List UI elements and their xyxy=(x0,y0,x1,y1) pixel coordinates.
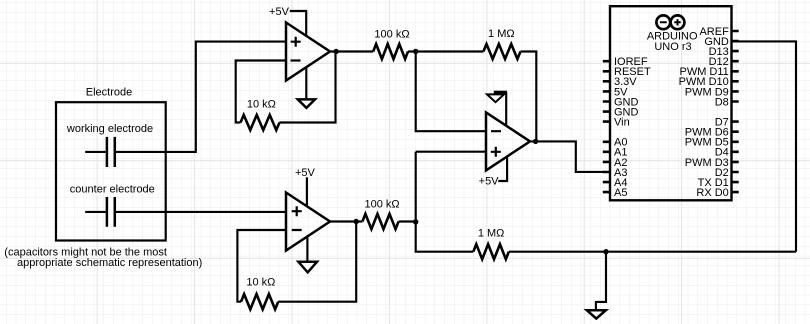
op-amp U1 xyxy=(286,23,330,81)
ground below U2 xyxy=(298,262,317,273)
svg-text:+5V: +5V xyxy=(269,6,290,18)
wire to bottom ground xyxy=(596,252,606,310)
electrode box xyxy=(56,102,166,240)
wire U3 + input branch down to bottom rail xyxy=(416,152,486,252)
wire +5V to U2 xyxy=(306,177,308,206)
wire U1 to ground xyxy=(305,67,307,99)
wire C2 to U2 + input xyxy=(116,211,286,213)
wire +5V to U3 xyxy=(498,156,507,181)
resistor R3 1 MOhm xyxy=(483,44,520,59)
node U1 output junction xyxy=(333,49,338,54)
node U2 output junction xyxy=(354,219,359,224)
wire R5 to U2 output xyxy=(278,222,356,302)
Arduino UNO r3 xyxy=(603,6,739,200)
node summing junction xyxy=(413,49,418,54)
wire C1 left lead xyxy=(85,151,106,153)
svg-text:10 kΩ: 10 kΩ xyxy=(247,99,276,111)
op-amp U3 xyxy=(486,112,530,170)
ground above U3 xyxy=(487,92,507,102)
wire U3 output xyxy=(530,141,604,172)
svg-text:Electrode: Electrode xyxy=(86,86,132,98)
svg-text:D8: D8 xyxy=(715,96,729,108)
svg-text:+5V: +5V xyxy=(295,167,316,179)
svg-text:10 kΩ: 10 kΩ xyxy=(246,277,275,289)
wire C1 to U1 + input xyxy=(116,42,286,152)
wire U1 output xyxy=(330,50,373,52)
wire U2 output xyxy=(330,220,362,222)
wire R2 to R3 xyxy=(408,50,484,52)
svg-text:A5: A5 xyxy=(614,187,627,199)
resistor R6 1 MOhm xyxy=(473,244,509,259)
wire +5V to U1 xyxy=(290,11,306,36)
svg-text:1 MΩ: 1 MΩ xyxy=(488,28,515,40)
svg-text:UNO r3: UNO r3 xyxy=(654,41,691,53)
wire right rail to Arduino GND xyxy=(732,41,796,251)
wire node to U3 - input xyxy=(416,52,486,132)
wire R4 to vertical node xyxy=(399,220,416,222)
svg-text:counter electrode: counter electrode xyxy=(70,183,155,195)
resistor R1 10 kOhm xyxy=(241,115,280,130)
node ground junction xyxy=(603,249,608,254)
svg-text:100 kΩ: 100 kΩ xyxy=(365,198,400,210)
Arduino logo xyxy=(656,15,670,29)
capacitor C2 (counter electrode) xyxy=(107,197,115,227)
capacitor C1 (working electrode) xyxy=(107,137,115,167)
wire U3 to top ground xyxy=(505,92,507,125)
wire U2 to ground xyxy=(306,236,308,261)
wire bottom rail R6 to right rail xyxy=(509,251,796,253)
svg-text:100 kΩ: 100 kΩ xyxy=(374,28,409,40)
wire R1 to U1 output xyxy=(280,52,336,123)
svg-text:Vin: Vin xyxy=(614,117,630,129)
svg-text:+5V: +5V xyxy=(479,176,500,188)
Arduino right pin stubs xyxy=(732,31,739,192)
op-amp U2 xyxy=(286,193,330,251)
resistor R4 100 kOhm xyxy=(362,214,398,229)
svg-text:working electrode: working electrode xyxy=(66,123,153,135)
resistor R5 10 kOhm xyxy=(241,294,278,309)
wire R3 to U3 output (feedback) xyxy=(521,52,537,142)
Arduino left pin stubs xyxy=(603,61,610,192)
wire U1 - input feedback left xyxy=(236,61,286,123)
svg-text:1 MΩ: 1 MΩ xyxy=(478,228,505,240)
ground bottom xyxy=(587,310,606,318)
resistor R2 100 kOhm xyxy=(373,44,408,59)
svg-text:RX D0: RX D0 xyxy=(696,187,728,199)
ground below U1 xyxy=(298,99,315,108)
wire U2 - input feedback left xyxy=(237,230,286,302)
node R4 junction xyxy=(413,219,418,224)
svg-text:appropriate schematic represen: appropriate schematic representation) xyxy=(17,257,202,269)
wire C2 left lead xyxy=(85,211,106,213)
node U3 output junction xyxy=(533,139,538,144)
